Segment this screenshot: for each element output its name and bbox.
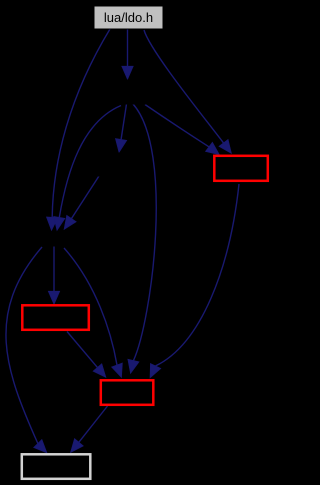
edge lua/ldo.h -> node C [46,29,110,231]
box R1 (red, right) [214,156,267,181]
edge node A -> node C [54,106,121,231]
edge node C -> box W [6,247,47,453]
edge node A -> box R1 [145,105,220,155]
node lua/ldo.h (root, grey) [94,6,163,29]
edge box R1 -> box R2 [150,184,239,378]
svg-text:lua/ldo.h: lua/ldo.h [104,10,153,25]
edge lua/ldo.h -> node A [122,29,134,80]
edge node A -> node B [115,104,126,153]
box W (grey outline, bottom) [22,454,91,479]
edge lua/ldo.h -> box R1 [144,30,232,154]
node B (invisible: black box, black text) [98,153,143,176]
node C (invisible: black box, black text) [24,232,88,246]
edge node C -> box R3 [48,246,60,305]
edge box R2 -> box W [71,406,108,453]
edge node B -> node C [64,176,99,230]
edge node A -> box R2 [128,104,156,374]
box R2 (red, centre-bottom) [101,380,154,405]
edge node C -> box R2 [64,248,122,378]
node A (invisible: black box, black text) [103,80,156,104]
box R3 (red, left) [22,305,89,330]
edge box R3 -> box R2 [67,332,106,378]
